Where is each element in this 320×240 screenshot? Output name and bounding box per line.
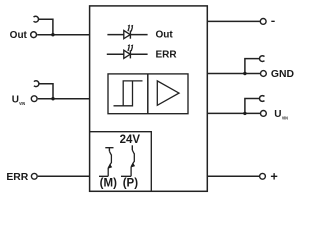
svg-text:ERR: ERR [156, 49, 178, 60]
svg-text:(P): (P) [123, 177, 139, 189]
comparator/amplifier function box [108, 74, 188, 114]
wire minus output [207, 20, 260, 22]
wire plus output [207, 175, 259, 177]
LED D2 ERR : cathode wire [130, 53, 147, 55]
transistor Q2 (P) body [121, 150, 134, 176]
wire test socket Out [39, 19, 53, 35]
wire UVIN left [38, 98, 90, 100]
svg-text:(M): (M) [100, 177, 117, 189]
junction UVIN left [51, 97, 54, 100]
junction GND [243, 72, 246, 75]
svg-text:VIN: VIN [282, 115, 288, 120]
svg-text:Out: Out [156, 30, 174, 41]
hysteresis symbol (Schmitt trigger) [114, 81, 143, 106]
svg-text:U: U [274, 109, 281, 120]
test socket UVIN left [34, 81, 39, 87]
test socket GND [259, 56, 264, 62]
terminal plus [260, 173, 266, 179]
24V supply box [90, 132, 152, 192]
junction UVIN right [243, 112, 246, 115]
wire test socket GND [245, 59, 260, 74]
LED D1 Out : anode wire [107, 34, 124, 36]
transistor Q1 (M) body [99, 151, 111, 176]
label minus [271, 21, 274, 22]
LED D1 Out : diode triangle [124, 31, 130, 39]
LED D2 ERR : emission arrows [128, 44, 134, 51]
LED D1 Out : cathode wire [130, 34, 147, 36]
terminal UVIN right [261, 111, 267, 117]
svg-text:Out: Out [10, 30, 28, 41]
terminal minus [260, 19, 266, 25]
function box divider [147, 74, 149, 114]
LED D1 Out : emission arrows [128, 25, 134, 32]
terminal GND [261, 71, 267, 77]
transistor Q2 (P) collector stem [131, 145, 133, 150]
LED D1 Out : cathode bar [129, 31, 131, 39]
svg-text:U: U [12, 95, 19, 106]
label plus [271, 173, 277, 179]
wire UVIN right [207, 112, 260, 114]
wire test socket UVIN left [39, 84, 53, 99]
LED D2 ERR : diode triangle [124, 50, 130, 58]
LED D2 ERR : cathode bar [129, 50, 131, 58]
transistor Q1 (M) emitter arrow [108, 164, 112, 169]
terminal ERR [31, 173, 37, 179]
svg-text:VIN: VIN [19, 101, 25, 106]
svg-text:24V: 24V [120, 134, 141, 146]
main module block U1 [90, 6, 208, 191]
terminal Out [31, 32, 37, 38]
LED D2 ERR : anode wire [107, 53, 124, 55]
svg-text:ERR: ERR [6, 172, 28, 183]
terminal UVIN left [31, 96, 37, 102]
test socket Out [34, 16, 39, 22]
transistor Q2 (P) emitter arrow [131, 162, 135, 167]
wire GND [207, 73, 260, 75]
wire test socket UVIN right [245, 99, 260, 114]
wire Out [37, 34, 89, 36]
svg-text:GND: GND [271, 69, 295, 80]
wire ERR [38, 175, 90, 177]
test socket UVIN right [259, 96, 264, 102]
amplifier triangle [157, 81, 179, 105]
transistor Q1 (M) collector rail T-bar [105, 148, 113, 152]
junction Out [51, 33, 54, 36]
